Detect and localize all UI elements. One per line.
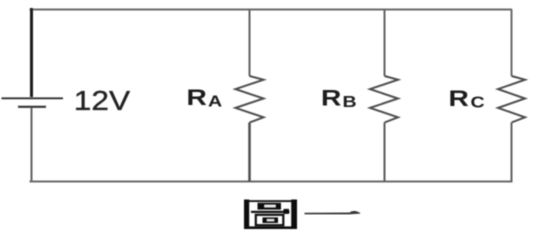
battery B1 positive plate [2,97,64,99]
battery B1 negative plate [18,106,46,108]
label 12V [74,86,130,117]
wire right lower [511,123,513,182]
svg-text:12V: 12V [74,86,130,117]
wire branch B upper [384,10,386,77]
label RC [449,87,486,111]
wire branch A upper [249,10,251,77]
resistor RC [498,76,525,123]
svg-text:R: R [321,86,341,110]
label RA [187,86,223,110]
svg-text:C: C [471,93,485,110]
svg-text:A: A [208,93,222,110]
wire bottom rail [30,181,513,183]
wire branch A lower [248,123,251,182]
wire top rail [30,9,513,11]
wire left upper (battery positive lead) [30,8,33,97]
label RB [321,86,357,110]
caption glyph 圖 (figure) [244,200,297,230]
svg-text:R: R [187,86,207,110]
resistor RB [370,76,398,123]
svg-text:B: B [343,93,357,110]
resistor RA [236,76,264,123]
wire branch B lower [384,123,386,182]
wire right upper [511,10,513,77]
caption numeral 一 (one) [305,211,361,214]
svg-text:R: R [449,87,469,111]
wire left lower (battery negative lead) [31,108,33,182]
